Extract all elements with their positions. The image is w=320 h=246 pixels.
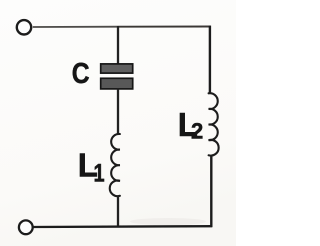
inductor L2 (4 scallop turns bulging right) (209, 93, 219, 155)
wire (top horizontal from top terminal to node A) (33, 26, 118, 28)
wire (vertical from node A down to capacitor C top plate) (117, 26, 119, 65)
svg-text:1: 1 (94, 159, 105, 187)
wire (bottom horizontal from bottom terminal to bottom-right corner) (33, 225, 212, 228)
terminal (bottom input port) (19, 220, 33, 234)
svg-text:2: 2 (191, 119, 203, 144)
inductor L1 (4 scallop turns bulging left) (110, 134, 120, 196)
terminal (top input port) (17, 20, 31, 34)
capacitor C top plate (101, 64, 133, 73)
svg-text:C: C (72, 57, 90, 89)
capacitor C bottom plate (101, 78, 133, 89)
wire (right vertical from inductor L2 down to bottom-right corner) (210, 155, 212, 227)
wire (vertical from capacitor C bottom plate to inductor L1) (117, 89, 119, 135)
wire (top horizontal from node A to top-right corner) (118, 26, 211, 28)
wire (vertical from inductor L1 to bottom wire) (117, 196, 119, 227)
faint scan smudge near bottom (130, 218, 206, 225)
wire (right vertical from top-right corner down to inductor L2) (209, 26, 211, 94)
